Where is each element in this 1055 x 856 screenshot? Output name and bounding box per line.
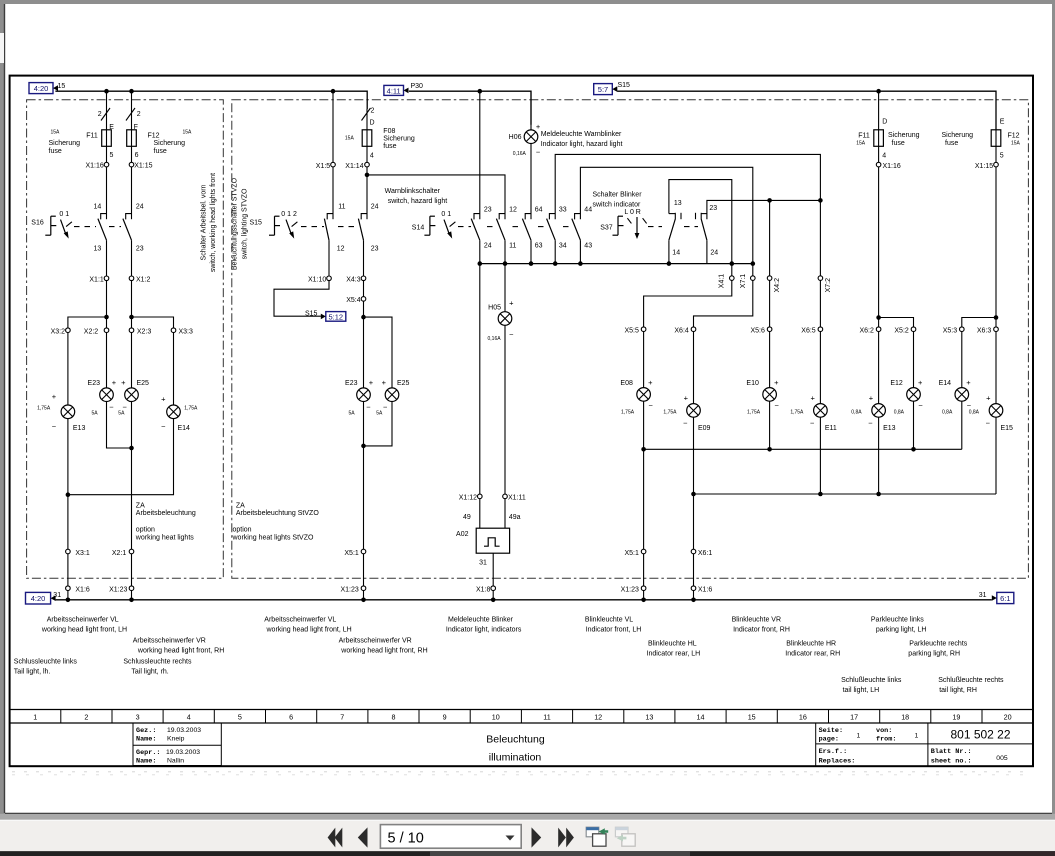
- svg-text:E23: E23: [88, 380, 101, 387]
- svg-text:31: 31: [53, 592, 61, 599]
- svg-text:from:: from:: [876, 736, 896, 744]
- svg-text:5 / 10: 5 / 10: [388, 830, 424, 846]
- svg-text:15A: 15A: [183, 130, 193, 136]
- svg-text:Sicherung: Sicherung: [383, 136, 415, 143]
- svg-text:ZA: ZA: [136, 502, 145, 509]
- terminal X3:2: [66, 328, 71, 333]
- svg-text:working head light front, LH: working head light front, LH: [266, 627, 352, 634]
- wire X4:2 column: [769, 200, 771, 276]
- wire E13r bottom: [878, 417, 880, 494]
- svg-text:fuse: fuse: [154, 148, 167, 155]
- wire A02 output: [492, 553, 494, 586]
- svg-text:14: 14: [697, 713, 705, 722]
- svg-text:S16: S16: [31, 219, 44, 226]
- terminal X5:1 middle: [361, 549, 366, 554]
- wire E08 top: [643, 332, 645, 388]
- node jbus 4: [553, 261, 558, 266]
- svg-text:Beleuchtungsschalter STVZO: Beleuchtungsschalter STVZO: [232, 177, 239, 270]
- svg-text:Indicator light, hazard light: Indicator light, hazard light: [541, 141, 623, 148]
- wire contact12 to X1:10: [328, 240, 330, 276]
- svg-text:12: 12: [509, 206, 517, 213]
- wire branch to X3:3: [132, 317, 174, 328]
- lamp E13: [872, 404, 886, 418]
- svg-text:23: 23: [371, 245, 379, 252]
- svg-text:1,75A: 1,75A: [37, 406, 51, 412]
- svg-text:801 502 22: 801 502 22: [950, 728, 1010, 742]
- svg-text:E23: E23: [345, 380, 358, 387]
- wire X1:10 to ref 5:12: [274, 281, 329, 317]
- svg-text:0,8A: 0,8A: [969, 410, 980, 416]
- node jbus S37rail3: [730, 261, 735, 266]
- bus P30: [409, 91, 531, 125]
- wire X1:5 to contact 11: [332, 167, 334, 219]
- svg-text:X2:1: X2:1: [112, 550, 127, 557]
- svg-text:X6:1: X6:1: [698, 550, 713, 557]
- svg-text:12: 12: [337, 245, 345, 252]
- svg-text:31: 31: [479, 560, 487, 567]
- wire E09 top: [693, 332, 695, 404]
- svg-text:X6:5: X6:5: [801, 327, 816, 334]
- svg-text:Arbeitsbeleuchtung StVZO: Arbeitsbeleuchtung StVZO: [236, 510, 319, 517]
- wire X2:3 to E25: [131, 333, 133, 389]
- ref box 4:20 bottom: [26, 592, 56, 604]
- terminal X1:16 left: [104, 162, 109, 167]
- svg-text:12: 12: [594, 713, 602, 722]
- svg-text:0,16A: 0,16A: [513, 151, 527, 157]
- connector pin 2/D: [362, 108, 371, 121]
- lamp E08: [637, 388, 651, 402]
- node bus15-X1:5: [331, 89, 336, 94]
- column scale row: [10, 709, 1033, 711]
- wire E14 top: [961, 332, 963, 388]
- terminal X1:2: [129, 276, 134, 281]
- node P30-S14: [478, 89, 483, 94]
- svg-text:2: 2: [371, 107, 375, 114]
- svg-text:−: −: [918, 401, 923, 410]
- svg-text:E12: E12: [890, 380, 903, 387]
- wire X7:2 column: [819, 200, 821, 276]
- svg-text:X1:8: X1:8: [476, 586, 491, 593]
- svg-text:5A: 5A: [92, 411, 99, 417]
- terminal X4:2: [767, 276, 772, 281]
- wire X1:12 to A02: [479, 499, 481, 529]
- svg-text:+: +: [112, 378, 117, 387]
- nav first page icon: [328, 828, 343, 848]
- contact S16-1: [98, 214, 107, 241]
- terminal X5:4: [361, 297, 366, 302]
- svg-text:Schlussleuchte links: Schlussleuchte links: [14, 658, 78, 665]
- wire X7:2 to X6:5: [819, 280, 821, 327]
- wire X1:23m to bus31: [363, 591, 365, 600]
- rail2 contact5 top: [580, 167, 752, 276]
- lamp E11: [814, 404, 828, 418]
- terminal X5:5: [641, 327, 646, 332]
- svg-text:+: +: [966, 378, 971, 387]
- svg-text:15: 15: [748, 713, 756, 722]
- svg-text:X4:2: X4:2: [774, 278, 781, 293]
- fuse F12 right: [991, 130, 1001, 147]
- svg-text:X4:1: X4:1: [718, 274, 725, 289]
- svg-text:Schalter Blinker: Schalter Blinker: [593, 192, 643, 199]
- svg-text:16: 16: [799, 713, 807, 722]
- svg-text:Schalter Arbeitsbel. vorn: Schalter Arbeitsbel. vorn: [200, 184, 207, 260]
- node busA E10: [767, 447, 772, 452]
- wire E23m bottom: [363, 402, 365, 550]
- svg-text:tail light, RH: tail light, RH: [939, 687, 977, 694]
- wire contact13 to X1:1: [106, 240, 108, 276]
- svg-text:Gepr.:: Gepr.:: [136, 749, 160, 757]
- wire X1:6r to bus31: [693, 591, 695, 600]
- svg-text:−: −: [810, 419, 815, 428]
- svg-text:−: −: [383, 402, 388, 411]
- wire E11 top: [819, 332, 821, 404]
- svg-text:5A: 5A: [118, 411, 125, 417]
- svg-text:Beleuchtung: Beleuchtung: [486, 733, 545, 745]
- wire X1:14 to node: [366, 167, 368, 175]
- nav previous page icon: [358, 827, 368, 847]
- svg-text:6:1: 6:1: [1000, 594, 1010, 603]
- svg-text:49a: 49a: [509, 514, 521, 521]
- terminal X6:1 right: [691, 549, 696, 554]
- terminal X2:1: [129, 549, 134, 554]
- terminal X1:23 left: [129, 586, 134, 591]
- svg-text:+: +: [369, 378, 374, 387]
- svg-text:5A: 5A: [349, 411, 356, 417]
- svg-text:E11: E11: [825, 425, 837, 432]
- wire X5:4 to node: [363, 301, 365, 317]
- svg-text:−: −: [509, 330, 514, 339]
- svg-text:X1:5: X1:5: [316, 163, 331, 170]
- svg-text:0,8A: 0,8A: [942, 410, 953, 416]
- wire split to E25 middle: [364, 317, 393, 388]
- wire F12 to X1:15: [131, 146, 133, 162]
- svg-text:23: 23: [709, 205, 717, 212]
- node busA E08: [641, 447, 646, 452]
- wire S37B bottom: [706, 240, 708, 263]
- svg-text:−: −: [986, 419, 991, 428]
- svg-text:X1:23: X1:23: [341, 586, 359, 593]
- wire X1:23 to bus31: [131, 591, 133, 600]
- svg-text:4:11: 4:11: [387, 86, 401, 95]
- contact S14-5: [572, 214, 581, 241]
- junction bus S14: [480, 263, 753, 265]
- wire X3:2 to E13: [67, 333, 69, 406]
- bus 31: [56, 599, 992, 601]
- svg-text:X4:3: X4:3: [346, 277, 361, 284]
- node X7:2 tap: [818, 198, 823, 203]
- node jbus 1: [478, 261, 483, 266]
- wire S37 contact23 top: [707, 200, 821, 219]
- svg-text:Kneip: Kneip: [167, 736, 185, 743]
- lamp E25 middle: [385, 388, 399, 402]
- node busS15-F11right: [876, 89, 881, 94]
- terminal X6:3: [994, 327, 999, 332]
- lamp E14: [955, 388, 969, 402]
- contact S14-4: [547, 214, 556, 241]
- terminal X1:15 right: [995, 146, 997, 162]
- terminal X2:3: [129, 328, 134, 333]
- terminal X1:10: [327, 276, 332, 281]
- wire X5:1r to X1:23r: [643, 554, 645, 586]
- rail1 contact4 top: [555, 154, 820, 219]
- svg-text:+: +: [684, 394, 689, 403]
- wire X1:5 column upper: [332, 91, 334, 162]
- wire X2:2 to E23: [106, 333, 108, 389]
- lamp E23 left: [100, 388, 114, 402]
- svg-text:64: 64: [535, 206, 543, 213]
- wire X1:23r to bus31: [643, 591, 645, 600]
- svg-text:+: +: [121, 378, 126, 387]
- svg-text:E13: E13: [883, 425, 896, 432]
- svg-text:1,75A: 1,75A: [747, 410, 761, 416]
- svg-text:X5:1: X5:1: [624, 550, 639, 557]
- svg-text:6: 6: [135, 152, 139, 159]
- wire contact1 to X1:12: [479, 264, 481, 495]
- svg-text:F08: F08: [383, 128, 395, 135]
- svg-text:Tail light, rh.: Tail light, rh.: [131, 669, 168, 676]
- svg-text:0 1: 0 1: [441, 211, 451, 218]
- svg-text:Sicherung: Sicherung: [888, 132, 920, 139]
- wire E12 top: [913, 332, 915, 388]
- title block name box: [133, 723, 221, 766]
- svg-text:parking light, LH: parking light, LH: [876, 627, 927, 634]
- terminal X5:2: [911, 327, 916, 332]
- svg-text:working head light front, RH: working head light front, RH: [137, 648, 224, 655]
- svg-text:19.03.2003: 19.03.2003: [167, 727, 201, 734]
- svg-text:X5:5: X5:5: [624, 327, 639, 334]
- svg-text:24: 24: [484, 243, 492, 250]
- bus A indicators: [644, 448, 962, 450]
- wire X1:15r down: [995, 167, 997, 327]
- wire X1:16 to contact 14: [106, 167, 108, 219]
- svg-text:5:7: 5:7: [598, 85, 608, 94]
- terminal X2:2: [104, 328, 109, 333]
- svg-text:4:20: 4:20: [34, 84, 49, 93]
- svg-text:X6:4: X6:4: [674, 327, 689, 334]
- svg-text:1,75A: 1,75A: [621, 410, 635, 416]
- svg-text:E10: E10: [746, 380, 759, 387]
- svg-text:1: 1: [857, 732, 861, 739]
- contact S14-3: [522, 214, 531, 241]
- svg-text:X1:11: X1:11: [508, 495, 526, 502]
- node bus31 x643: [641, 598, 646, 603]
- terminal X7:1: [751, 276, 756, 281]
- wire X1:15 to contact 24: [131, 167, 133, 219]
- svg-text:Indicator rear, RH: Indicator rear, RH: [785, 650, 840, 657]
- lamp E10: [763, 388, 777, 402]
- svg-text:Blinkleuchte HR: Blinkleuchte HR: [786, 640, 836, 647]
- svg-text:Arbeitsscheinwerfer VL: Arbeitsscheinwerfer VL: [264, 617, 336, 624]
- svg-text:5: 5: [238, 713, 242, 722]
- svg-text:4:20: 4:20: [31, 594, 46, 603]
- wire X3:1 to X1:6: [67, 554, 69, 586]
- svg-text:E08: E08: [620, 380, 633, 387]
- lamp E14 left: [167, 405, 181, 419]
- node X2:3 junction: [129, 315, 134, 320]
- wire F11 column upper: [106, 91, 108, 130]
- svg-text:9: 9: [443, 713, 447, 722]
- svg-text:+: +: [774, 378, 779, 387]
- svg-text:17: 17: [850, 713, 858, 722]
- coupling S37: [648, 226, 662, 228]
- svg-text:−: −: [52, 422, 57, 431]
- svg-text:13: 13: [674, 200, 682, 207]
- wire contact23 to X4:3: [363, 240, 365, 276]
- svg-text:15: 15: [58, 83, 66, 90]
- node X6:3 split: [994, 315, 999, 320]
- wire X1:2 down: [131, 281, 133, 328]
- node busB E09: [691, 492, 696, 497]
- svg-text:page:: page:: [819, 736, 839, 744]
- wire split to X5:2: [879, 318, 914, 327]
- wire contact23 to X1:2: [131, 240, 133, 276]
- node busA E12: [911, 447, 916, 452]
- svg-text:11: 11: [543, 713, 550, 722]
- wire X6:1r to X1:6r: [693, 554, 695, 586]
- wire E14 bottom: [961, 401, 963, 449]
- wire E15 bottom: [995, 417, 997, 494]
- svg-text:Blatt Nr.:: Blatt Nr.:: [931, 748, 972, 756]
- terminal X1:23 middle: [361, 586, 366, 591]
- svg-text:Sicherung: Sicherung: [942, 132, 974, 139]
- ref box 5:12: [321, 312, 346, 322]
- svg-text:X5:3: X5:3: [943, 327, 958, 334]
- wire X7:1 to X6:4: [694, 280, 753, 327]
- wire F11 right upper: [878, 91, 880, 130]
- coupling S15: [301, 226, 324, 228]
- wire split to X5:3: [962, 318, 996, 327]
- wire S14 contact3 bottom: [530, 240, 532, 263]
- svg-text:14: 14: [94, 203, 102, 210]
- svg-text:33: 33: [559, 206, 567, 213]
- svg-text:+: +: [811, 394, 816, 403]
- coupling S14: [458, 226, 471, 228]
- svg-text:4: 4: [882, 152, 886, 159]
- svg-text:Parkleuchte links: Parkleuchte links: [871, 617, 924, 624]
- terminal X1:11: [503, 494, 508, 499]
- svg-text:63: 63: [535, 243, 543, 250]
- svg-text:34: 34: [559, 243, 567, 250]
- svg-text:X1:6: X1:6: [75, 586, 90, 593]
- terminal X6:4: [691, 327, 696, 332]
- lamp E15: [989, 404, 1003, 418]
- svg-text:Seite:: Seite:: [819, 727, 843, 735]
- node X6:2 split: [876, 315, 881, 320]
- svg-text:49: 49: [463, 514, 471, 521]
- svg-text:fuse: fuse: [49, 148, 62, 155]
- svg-text:Meldeleuchte Warnblinker: Meldeleuchte Warnblinker: [541, 131, 622, 138]
- wire S14 contact1 top: [479, 91, 481, 219]
- svg-text:0,16A: 0,16A: [488, 336, 502, 342]
- svg-text:1,75A: 1,75A: [184, 406, 198, 412]
- svg-text:2: 2: [98, 111, 102, 118]
- wire X1:1 down: [106, 281, 108, 328]
- rail3 S37 contact13 top: [669, 180, 732, 276]
- lamp E13 left: [61, 405, 75, 419]
- wire S37A bottom: [668, 240, 670, 263]
- wire F08 to S14 contact 12: [367, 175, 505, 219]
- svg-text:X1:2: X1:2: [136, 277, 151, 284]
- svg-text:Replaces:: Replaces:: [819, 757, 856, 765]
- terminal X5:6: [767, 327, 772, 332]
- svg-text:X6:2: X6:2: [859, 327, 874, 334]
- wire contact2 to H05: [504, 264, 506, 312]
- node jbus 2: [503, 261, 508, 266]
- node bus31 x693: [691, 598, 696, 603]
- svg-text:X3:3: X3:3: [179, 328, 194, 335]
- svg-text:+: +: [986, 394, 991, 403]
- svg-text:−: −: [649, 401, 654, 410]
- terminal X5:3: [960, 327, 965, 332]
- terminal X1:1: [104, 276, 109, 281]
- svg-text:Indicator light, indicators: Indicator light, indicators: [446, 627, 522, 634]
- svg-text:H06: H06: [509, 134, 522, 141]
- wire E15 top: [995, 332, 997, 404]
- wire X4:2 to X5:6: [769, 280, 771, 327]
- node bus31 x493: [491, 598, 496, 603]
- svg-text:5: 5: [110, 152, 114, 159]
- svg-text:Blinkleuchte HL: Blinkleuchte HL: [648, 640, 697, 647]
- terminal X1:14: [365, 162, 370, 167]
- svg-text:Name:: Name:: [136, 736, 156, 744]
- svg-text:7: 7: [340, 713, 344, 722]
- wire S14 contact1 bottom: [479, 240, 481, 263]
- wire S14 contact2 bottom: [504, 240, 506, 263]
- svg-text:18: 18: [901, 713, 909, 722]
- svg-text:−: −: [775, 401, 780, 410]
- svg-text:+: +: [648, 378, 653, 387]
- svg-text:4: 4: [370, 153, 374, 160]
- svg-text:X1:23: X1:23: [109, 586, 127, 593]
- wire E25 column down: [131, 402, 133, 550]
- fuse F11: [102, 130, 112, 147]
- contact S15-1: [324, 214, 333, 241]
- svg-text:X5:6: X5:6: [750, 327, 765, 334]
- drawing frame: [10, 76, 1033, 767]
- svg-text:19.03.2003: 19.03.2003: [166, 749, 200, 756]
- svg-text:+: +: [509, 299, 514, 308]
- node bus31 x67: [66, 598, 71, 603]
- svg-text:15A: 15A: [345, 136, 355, 142]
- wire E23 bottom to E25 column: [107, 402, 132, 449]
- terminal X1:16 right: [878, 146, 880, 162]
- svg-text:11: 11: [509, 243, 516, 250]
- node busB E11: [818, 492, 823, 497]
- svg-text:X1:10: X1:10: [308, 277, 326, 284]
- terminal X4:3: [361, 276, 366, 281]
- page number input: [380, 825, 521, 849]
- svg-text:1: 1: [33, 713, 37, 722]
- svg-text:option: option: [136, 526, 155, 533]
- svg-text:X6:3: X6:3: [977, 327, 992, 334]
- svg-text:E14: E14: [178, 425, 191, 432]
- svg-text:D: D: [370, 119, 375, 126]
- bus 15: [55, 91, 367, 109]
- svg-text:F11: F11: [86, 133, 98, 140]
- svg-text:Arbeitsscheinwerfer VL: Arbeitsscheinwerfer VL: [47, 617, 119, 624]
- terminal X6:2: [876, 327, 881, 332]
- taskbar strip: [0, 851, 1055, 856]
- toolbar: [0, 814, 1055, 820]
- wire F11 to X1:16: [106, 146, 108, 162]
- svg-text:F12: F12: [1008, 133, 1020, 140]
- svg-text:13: 13: [645, 713, 653, 722]
- ref box 6:1: [992, 592, 1014, 603]
- lamp E23 middle: [357, 388, 371, 402]
- svg-text:Schlußleuchte links: Schlußleuchte links: [841, 677, 902, 684]
- svg-text:6: 6: [289, 713, 293, 722]
- option box right - lighting StVZO: [232, 100, 1029, 578]
